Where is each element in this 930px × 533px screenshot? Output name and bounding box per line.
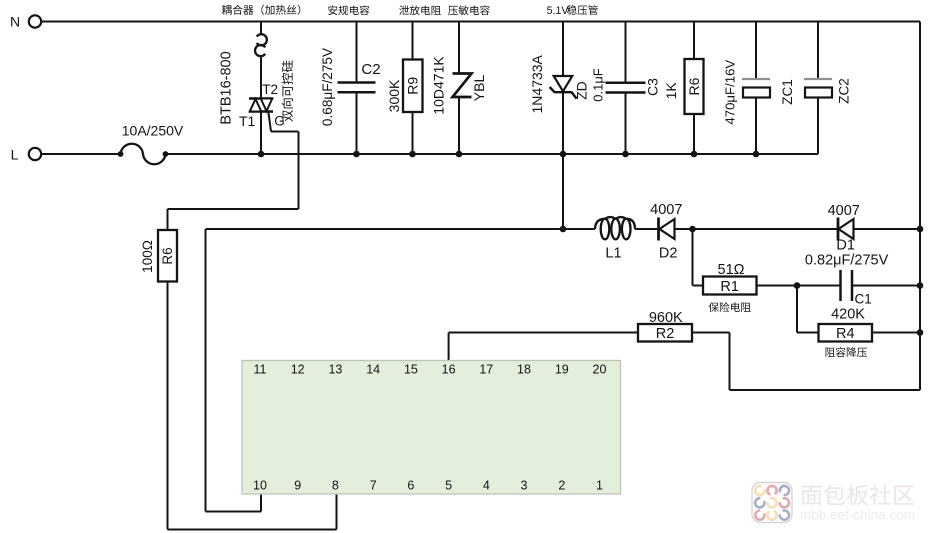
wire L rail 2 bbox=[166, 153, 819, 155]
wire L rail bbox=[41, 153, 120, 155]
wire top rail bbox=[41, 21, 920, 23]
node C2 bbox=[353, 151, 360, 158]
label safety capacitor bbox=[328, 5, 369, 15]
label zener bbox=[547, 5, 598, 17]
svg-text:100Ω: 100Ω bbox=[140, 240, 155, 273]
varistor YBL 10D471K bbox=[431, 22, 487, 155]
svg-text:4007: 4007 bbox=[828, 203, 860, 219]
capacitor ZC1 470uF/16V bbox=[723, 22, 795, 155]
svg-text:4007: 4007 bbox=[650, 202, 682, 218]
resistor R6 100ohm bbox=[140, 230, 177, 282]
wire mid to pin10 bbox=[206, 229, 262, 512]
node R1-C1 bbox=[794, 282, 801, 289]
svg-text:5.1V: 5.1V bbox=[547, 5, 570, 17]
svg-text:C3: C3 bbox=[645, 78, 661, 96]
diode D1 4007 bbox=[828, 203, 860, 254]
watermark (decorative) bbox=[752, 483, 915, 523]
node ZD rail bbox=[560, 151, 567, 158]
node D1-rail bbox=[917, 226, 924, 233]
svg-text:BTB16-800: BTB16-800 bbox=[219, 51, 235, 124]
svg-text:YBL: YBL bbox=[471, 75, 487, 102]
node ZC1 bbox=[753, 151, 760, 158]
svg-text:R9: R9 bbox=[405, 77, 421, 95]
wire R6 to pin8 bbox=[168, 282, 337, 530]
svg-text:N: N bbox=[10, 14, 20, 30]
node R9 bbox=[409, 151, 416, 158]
svg-text:12: 12 bbox=[291, 362, 305, 376]
svg-text:R6: R6 bbox=[686, 77, 702, 95]
svg-text:D2: D2 bbox=[659, 246, 678, 262]
resistor R1 51ohm bbox=[693, 229, 841, 312]
svg-text:16: 16 bbox=[442, 362, 456, 376]
terminal N bbox=[10, 14, 41, 30]
svg-text:1K: 1K bbox=[663, 82, 679, 100]
IC U1 bbox=[242, 361, 621, 495]
wire coupler-triac bbox=[260, 56, 262, 98]
node C1-rail bbox=[917, 282, 924, 289]
resistor R2 960K bbox=[449, 310, 920, 390]
fuse F1 10A/250V bbox=[118, 123, 184, 165]
node triac junction bbox=[258, 151, 265, 158]
svg-text:R6: R6 bbox=[160, 247, 175, 264]
svg-text:mbb.eet-china.com: mbb.eet-china.com bbox=[800, 508, 915, 523]
node D2-R1 bbox=[689, 226, 696, 233]
svg-text:T2: T2 bbox=[262, 82, 278, 97]
svg-text:G: G bbox=[274, 114, 285, 129]
node R6-1K bbox=[691, 151, 698, 158]
svg-text:11: 11 bbox=[254, 362, 267, 376]
svg-text:R4: R4 bbox=[836, 326, 855, 342]
node C3 bbox=[622, 151, 629, 158]
svg-text:10: 10 bbox=[253, 478, 267, 492]
label bleeder resistor bbox=[399, 5, 441, 15]
triac Q1 BTB16-800 bbox=[219, 51, 294, 129]
svg-text:18: 18 bbox=[517, 362, 531, 376]
wire coupler top bbox=[260, 22, 262, 35]
svg-text:2: 2 bbox=[558, 478, 565, 492]
label varistor bbox=[448, 5, 490, 15]
svg-text:20: 20 bbox=[593, 362, 607, 376]
svg-text:19: 19 bbox=[555, 362, 569, 376]
inductor L1 bbox=[595, 217, 635, 261]
svg-text:5: 5 bbox=[445, 478, 452, 492]
svg-text:420K: 420K bbox=[831, 307, 865, 323]
svg-text:4: 4 bbox=[483, 478, 490, 492]
svg-text:15: 15 bbox=[404, 362, 418, 376]
svg-text:R2: R2 bbox=[656, 326, 675, 342]
svg-text:L1: L1 bbox=[605, 246, 621, 262]
svg-text:C2: C2 bbox=[361, 61, 380, 78]
coupler heating element bbox=[255, 34, 267, 56]
svg-text:0.1μF: 0.1μF bbox=[591, 68, 606, 102]
svg-text:1: 1 bbox=[596, 478, 603, 492]
svg-text:10A/250V: 10A/250V bbox=[122, 123, 184, 139]
svg-text:L: L bbox=[11, 147, 19, 163]
capacitor C2 0.68uF/275V bbox=[320, 22, 381, 155]
wire triac to L rail bbox=[260, 112, 262, 155]
label coupler bbox=[222, 5, 301, 15]
svg-text:300K: 300K bbox=[386, 79, 402, 112]
svg-text:8: 8 bbox=[332, 478, 339, 492]
zener ZD 1N4733A bbox=[529, 22, 590, 230]
svg-text:0.68μF/275V: 0.68μF/275V bbox=[320, 48, 335, 126]
svg-text:3: 3 bbox=[521, 478, 528, 492]
svg-text:7: 7 bbox=[370, 478, 377, 492]
svg-text:470μF/16V: 470μF/16V bbox=[723, 60, 738, 125]
svg-text:14: 14 bbox=[366, 362, 380, 376]
svg-text:ZC1: ZC1 bbox=[780, 79, 795, 105]
resistor R6 1K bbox=[663, 22, 704, 155]
wire mid bus bbox=[206, 228, 921, 230]
capacitor C3 0.1uF bbox=[591, 22, 661, 155]
capacitor C1 0.82uF/275V bbox=[805, 253, 920, 307]
svg-text:6: 6 bbox=[407, 478, 414, 492]
svg-text:13: 13 bbox=[328, 362, 342, 376]
node ZD-mid bbox=[560, 226, 567, 233]
resistor R4 420K bbox=[797, 286, 920, 358]
svg-text:T1: T1 bbox=[239, 113, 256, 129]
diode D2 4007 bbox=[650, 202, 682, 262]
wire gate bbox=[168, 112, 299, 231]
svg-text:1N4733A: 1N4733A bbox=[529, 54, 545, 113]
svg-text:0.82μF/275V: 0.82μF/275V bbox=[805, 253, 889, 269]
svg-text:ZC2: ZC2 bbox=[837, 78, 852, 104]
svg-text:R1: R1 bbox=[720, 279, 739, 295]
svg-text:17: 17 bbox=[479, 362, 493, 376]
svg-text:C1: C1 bbox=[855, 292, 872, 307]
resistor R9 300K bbox=[386, 22, 423, 155]
wire right rail bbox=[919, 22, 921, 391]
svg-text:10D471K: 10D471K bbox=[431, 56, 447, 115]
terminal L bbox=[11, 147, 42, 163]
svg-text:9: 9 bbox=[294, 478, 301, 492]
capacitor ZC2 bbox=[804, 22, 852, 155]
node R4-rail bbox=[917, 329, 924, 336]
node YBL bbox=[456, 151, 463, 158]
